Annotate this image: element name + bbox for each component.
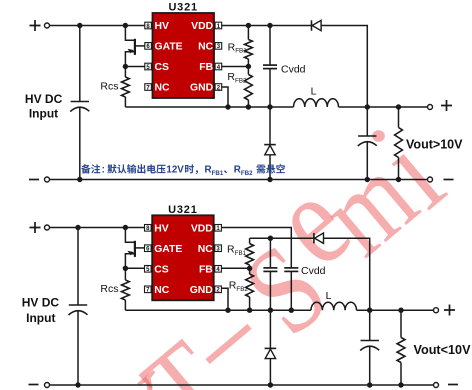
svg-text:FB: FB [199,265,213,276]
transistor channel bar (top) [134,39,136,55]
pin 3 NC box (top) [215,43,222,50]
diode D1 series VDD (top) [311,20,313,30]
capacitor output cap (top) [366,107,368,136]
svg-text:Input: Input [26,311,55,325]
pin 2 GND box (top) [215,84,222,91]
svg-text::: : [102,165,105,176]
junction GND drop (top) [225,104,230,109]
junction HV branch (bottom) [123,225,128,230]
junction freewheel branch (top) [267,104,272,109]
pin 1 VDD box (top) [215,22,222,29]
wire CS pin stub (bottom) [125,267,144,269]
wire GND pin drop (top) [221,87,228,107]
node + output terminal (bottom) [434,308,439,313]
svg-text:HV: HV [154,224,169,235]
junction CS node (top) [123,64,128,69]
svg-text:GND: GND [190,83,214,94]
junction bottom load (bottom) [398,382,403,387]
svg-text:NC: NC [154,285,170,296]
pin 5 CS box (bottom) [145,266,152,273]
junction cap1 top (bottom) [268,236,273,241]
junction Cvdd branch (top) [267,23,272,28]
wire FB pin to divider (top) [221,66,248,68]
node - output terminal (bottom) [434,383,439,388]
transistor Q internal HV FET drain lead (top) [125,26,134,41]
svg-text:NC: NC [155,83,171,94]
junction input cap (bottom) [75,225,80,230]
- polarity sign input (bottom) [29,384,39,386]
wire VDD rail to corner (bottom) [221,228,291,268]
wire input top rail (bottom) [50,227,145,229]
wire diode to corner + down (top) [321,26,367,108]
junction bottom freewheel (bottom) [268,382,273,387]
inductor L (top) [294,99,339,107]
pin 7 NC box (bottom) [145,286,152,293]
+ output sign (bottom) [444,305,455,316]
resistor RFB1 (bottom) [249,238,251,243]
junction load branch (bottom) [398,308,403,313]
pin 4 FB box (top) [215,63,222,70]
junction bottom input cap (bottom) [75,382,80,387]
junction bottom output cap (top) [365,177,370,182]
+ polarity sign input (bottom) [30,222,41,233]
svg-text:GND: GND [190,285,214,296]
pin 4 FB box (bottom) [215,266,222,273]
+ output sign (top) [441,100,452,111]
- polarity sign input (top) [29,179,39,181]
resistor load Vout (bottom) [400,310,402,337]
svg-text:NC: NC [198,244,214,255]
junction load branch (top) [396,104,401,109]
transistor Q internal HV FET drain lead (bottom) [125,228,134,243]
wire rail after L (top) [339,106,428,108]
svg-text:Vout<10V: Vout<10V [414,343,472,357]
junction Cvdd bottom (bottom) [289,308,294,313]
capacitor Cvdd (top) [269,26,271,66]
diode D2 freewheel (top) [264,144,276,146]
junction FB node (top) [246,64,251,69]
svg-text:GATE: GATE [155,42,183,53]
svg-text:HV DC: HV DC [22,295,60,309]
wire input top rail (top) [50,25,145,27]
capacitor input bulk cap (bottom) [77,228,79,306]
transistor gate lead to GATE pin (top) [135,45,145,47]
resistor Rcs (top) [124,67,126,78]
- output sign (bottom) [448,384,458,386]
junction bottom freewheel (top) [267,177,272,182]
svg-text:CS: CS [154,265,169,276]
resistor RFB2 (top) [247,66,249,74]
pin 6 GATE box (bottom) [145,245,152,252]
transistor gate lead to GATE pin (bottom) [135,247,145,249]
wire GND pin drop (bottom) [221,288,228,310]
transistor channel bar (bottom) [134,241,136,257]
svg-text:HV: HV [155,21,170,32]
svg-text:Rcs: Rcs [100,283,118,295]
- output sign (top) [444,179,454,181]
svg-text:L: L [311,86,317,98]
op-amp/controller IC U321 body (bottom) [152,215,214,300]
capacitor Cvdd (bottom) [284,267,298,269]
junction HV branch (top) [123,23,128,28]
junction RFB1 top (top) [246,23,251,28]
svg-text:VDD: VDD [191,224,213,235]
pin 6 GATE box (top) [145,43,152,50]
svg-text:Cvdd: Cvdd [281,63,306,75]
note text 备注 (blue annotation) [81,164,90,173]
diode D1 (bottom) [313,233,315,243]
op-amp/controller IC U321 body (top) [153,13,215,98]
wire switch-node rail (bottom) [125,309,311,311]
pin 8 HV box (bottom) [145,225,152,232]
wire CS pin stub (top) [125,66,144,68]
svg-text:Vout>10V: Vout>10V [406,138,463,152]
wire switch-node rail (top) [125,106,293,108]
svg-text:12V: 12V [166,165,184,176]
svg-text:U321: U321 [168,2,198,14]
wire VDD rail (top) [221,25,311,27]
wire diode to corner + down (bottom) [324,238,370,310]
svg-text:Cvdd: Cvdd [301,265,326,277]
pin 3 NC box (bottom) [215,245,222,252]
inductor L (bottom) [311,302,357,310]
wire bottom return rail (top) [50,179,428,181]
junction FB node (bottom) [247,266,252,271]
junction bottom output cap (bottom) [367,382,372,387]
svg-text:HV DC: HV DC [25,92,63,106]
wire bottom return rail (bottom) [50,384,434,386]
node + input terminal (bottom circuit) [45,225,50,230]
junction output cap (top) [365,104,370,109]
pin 5 CS box (top) [145,63,152,70]
capacitor C1 aux (bottom) [269,238,271,268]
capacitor output cap (bottom) [369,310,371,340]
pin 1 VDD box (bottom) [215,225,222,232]
resistor Rcs (bottom) [124,268,126,280]
wire FB pin to divider (bottom) [221,267,249,269]
svg-text:Rcs: Rcs [100,81,118,93]
node - input terminal (top) [45,177,50,182]
junction CS node (bottom) [123,266,128,271]
resistor load Vout (top) [398,107,400,128]
svg-text:GATE: GATE [154,244,182,255]
junction output cap (bottom) [367,308,372,313]
node + input terminal (top circuit) [45,23,50,28]
pin 2 GND box (bottom) [215,286,222,293]
junction bottom input cap (top) [77,177,82,182]
capacitor input bulk cap (top) [79,26,81,102]
transistor source lead with arrow (top) [125,52,134,67]
diode D2 freewheel (bottom) [265,347,277,349]
junction freewheel branch (bottom) [268,308,273,313]
wire rail after L (bottom) [357,309,434,311]
svg-text:FB: FB [199,62,213,73]
junction RFB2 bottom (bottom) [247,308,252,313]
junction input cap (top) [77,23,82,28]
node - output terminal (top) [428,177,433,182]
junction RFB2 bottom (top) [246,104,251,109]
svg-text:NC: NC [198,42,214,53]
svg-text:VDD: VDD [191,21,213,32]
pin 7 NC box (top) [145,84,152,91]
svg-text:Input: Input [29,107,58,121]
+ polarity sign input (top) [30,20,41,31]
svg-text:U321: U321 [168,204,198,216]
transistor source lead with arrow (bottom) [125,254,134,269]
junction GND drop (bottom) [225,308,230,313]
node + output terminal (top) [428,105,433,110]
node - input terminal (bottom) [45,383,50,388]
wire diode row (bottom) [250,237,314,239]
pin 8 HV box (top) [145,22,152,29]
svg-text:CS: CS [155,62,170,73]
resistor RFB1 (top) [247,26,249,40]
svg-text:L: L [326,290,332,302]
resistor RFB2 (bottom) [249,268,251,274]
junction bottom load (top) [396,177,401,182]
